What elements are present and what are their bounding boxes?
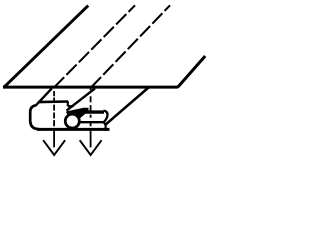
top plate right edge <box>178 56 206 87</box>
middle plate bottom band <box>83 110 104 113</box>
slot junction connector <box>104 122 106 128</box>
bottom plate left receding edge <box>35 88 52 106</box>
top plate left edge <box>4 6 89 88</box>
slot bottom edge <box>79 121 104 123</box>
long receding diagonal <box>106 88 148 125</box>
middle plate left receding edge <box>67 88 96 110</box>
arrow head 2 <box>80 140 102 155</box>
top plate bottom edge <box>3 86 178 89</box>
center line 1 <box>53 91 55 147</box>
hidden dashed line 1 <box>54 5 135 87</box>
roller ring <box>65 114 79 128</box>
bottom plate bottom edge <box>37 128 110 131</box>
bottom plate left rounded cap <box>30 105 38 129</box>
slot top stub <box>68 105 74 107</box>
arrow head 1 <box>43 140 65 155</box>
band right hook <box>104 111 108 123</box>
bottom plate top edge <box>38 100 68 103</box>
hidden dashed line 2 <box>91 5 170 87</box>
center line 2 <box>90 88 92 147</box>
weld nugget blob <box>66 108 89 121</box>
step jog down <box>67 101 69 106</box>
